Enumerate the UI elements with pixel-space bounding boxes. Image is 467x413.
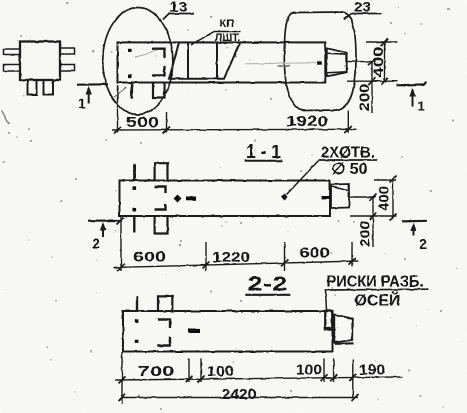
hatch plate divider 2: [216, 43, 218, 79]
svg-text:400: 400: [370, 46, 386, 77]
svg-text:2ХØТВ.: 2ХØТВ.: [321, 144, 375, 161]
section marker 1 right: [397, 82, 426, 114]
faint mid pencil line body: [245, 63, 316, 64]
svg-text:ØСЕЙ: ØСЕЙ: [355, 292, 401, 310]
lower tab line 1-1: [133, 216, 135, 233]
svg-text:500: 500: [126, 114, 159, 131]
svg-text:1: 1: [78, 96, 86, 112]
section marker 2 right: [402, 221, 427, 253]
leg line below body: [131, 83, 134, 98]
ext 201: [200, 358, 202, 382]
plate dot top-left (top view): [128, 49, 132, 53]
svg-text:КП: КП: [219, 18, 234, 30]
ticks: [118, 264, 125, 271]
left rebar bar lower: [4, 65, 21, 72]
riska tab bottom bar 2-2: [325, 327, 334, 330]
svg-text:200: 200: [357, 221, 373, 247]
ext mid: [347, 61, 373, 63]
detail ellipse left (node 13): [103, 8, 173, 115]
svg-text:2-2: 2-2: [248, 274, 288, 296]
bracket bottom 2-2: [158, 337, 171, 346]
plate dot top 1-1: [133, 186, 137, 190]
left rebar bar upper: [4, 49, 21, 55]
svg-text:190: 190: [359, 362, 385, 379]
svg-text:∅ 50: ∅ 50: [332, 161, 368, 178]
upper tab square 2-2: [158, 296, 172, 311]
right side vertical dims (top view): [347, 39, 398, 114]
ext top: [374, 179, 397, 181]
end trapezoid 1-1: [331, 184, 349, 208]
bracket top 1-1: [155, 187, 166, 194]
plate dot bottom 2-2: [135, 339, 139, 343]
scratch across ellipse lower left: [114, 88, 126, 98]
hole diamond right 1-1 (leader target): [281, 194, 288, 201]
ext line left: [117, 85, 119, 133]
ticks: [381, 39, 388, 46]
corner tick at body: [117, 218, 124, 225]
ext left: [120, 217, 122, 271]
ext at 352: [351, 242, 353, 267]
bracket bottom 1-1: [155, 204, 166, 210]
ext left long: [121, 352, 123, 404]
ext at 206: [205, 242, 207, 271]
ext line right: [347, 111, 349, 133]
label 23: [344, 0, 382, 20]
dim 200 line: [372, 197, 374, 247]
hatch plate parallelogram KP: [169, 43, 240, 79]
dim 400 line: [392, 179, 394, 217]
ext top: [366, 41, 398, 43]
ticks: [390, 176, 397, 183]
end trapezoid inner line lower: [328, 72, 346, 73]
end trapezoid 2-2: [334, 315, 352, 343]
right side vertical dims (1-1): [350, 176, 397, 248]
upper tab line 1-1: [133, 164, 135, 180]
svg-text:100: 100: [296, 362, 322, 379]
ext line mid: [166, 112, 168, 133]
label riski razb osey: [325, 274, 429, 311]
title 2-2: [245, 274, 290, 296]
bottom leg bar 2: [44, 80, 54, 95]
svg-text:1: 1: [418, 99, 425, 114]
tick: [345, 126, 352, 133]
section marker 1 left: [77, 84, 108, 111]
dim line row2 2420: [122, 397, 358, 399]
riska tab 2-2: [325, 311, 332, 330]
svg-text:1220: 1220: [212, 249, 250, 266]
section marker 2 left: [88, 218, 124, 252]
right rebar bar lower: [60, 65, 75, 72]
tick: [114, 127, 121, 134]
ext mid: [350, 196, 376, 198]
ext 334: [333, 358, 335, 382]
bracket top 2-2: [158, 320, 171, 329]
dim line: [112, 128, 357, 131]
end trapezoid inner slant 1-1: [332, 187, 349, 191]
faint scratch in body: [135, 50, 157, 58]
svg-text:РИСКИ РАЗБ.: РИСКИ РАЗБ.: [327, 274, 424, 291]
svg-text:13: 13: [169, 0, 188, 15]
2-2 bottom dimension rows: [115, 352, 402, 404]
dim 200 line: [371, 62, 373, 113]
right rebar bar upper: [60, 48, 75, 54]
ext at 284.5: [284, 242, 286, 271]
dash mark 2-2: [189, 329, 201, 334]
detail ellipse right (node 23): [284, 12, 356, 111]
ticks row1: [119, 376, 126, 383]
column body 2-2: [123, 311, 333, 352]
ext 189: [188, 358, 190, 382]
svg-text:700: 700: [138, 363, 175, 380]
svg-text:600: 600: [133, 249, 166, 266]
dim line row1: [115, 377, 402, 380]
column body 1-1: [120, 181, 331, 217]
svg-text:2420: 2420: [222, 386, 257, 403]
svg-text:2: 2: [92, 235, 100, 251]
embedded plate bracket bottom (top view): [153, 67, 165, 76]
bottom leg bar 1: [28, 80, 37, 95]
ext bottom: [350, 215, 397, 217]
plate dot top 2-2: [135, 319, 139, 323]
upper tab line 2-2: [136, 296, 138, 311]
title 1-1: [245, 142, 282, 163]
hatch plate divider 1: [187, 43, 189, 79]
ticks row2: [119, 394, 126, 401]
ext 324: [323, 358, 325, 382]
dim 400 line: [384, 42, 386, 81]
faint dash mid body: [277, 66, 290, 67]
1-1 bottom dimension row 600/1220/600: [114, 217, 358, 271]
embedded plate bracket top (top view): [153, 49, 165, 57]
end trapezoid top view: [327, 48, 347, 76]
ext bottom: [347, 80, 398, 82]
label 2xOTB d50: [287, 144, 378, 194]
svg-text:400: 400: [376, 186, 392, 211]
extra bottom line trapezoid 2-2: [335, 342, 354, 345]
leg square below body: [153, 83, 165, 98]
ext 353 long: [352, 360, 354, 399]
end trapezoid inner line upper: [328, 53, 346, 54]
hole diamond left 1-1: [174, 195, 182, 203]
weld mark top view: [317, 61, 322, 64]
plate dot bottom-left (top view): [128, 74, 132, 78]
tick: [163, 127, 170, 134]
svg-text:100: 100: [207, 363, 234, 380]
label 13: [163, 0, 194, 20]
svg-text:2: 2: [419, 237, 427, 253]
cross-section square (top-left column section): [20, 42, 60, 81]
lower tab square 1-1: [155, 216, 168, 234]
upper tab square 1-1: [155, 163, 168, 180]
svg-text:200: 200: [356, 83, 372, 111]
dimension 500/1920 row: [112, 85, 357, 134]
svg-text:600: 600: [300, 245, 330, 262]
svg-text:1920: 1920: [286, 113, 328, 130]
svg-text:23: 23: [354, 0, 371, 15]
dim line: [114, 261, 358, 268]
weld dash near right edge 1-1: [322, 196, 330, 199]
label KP / 1sht: [191, 18, 241, 45]
plate dot bottom 1-1: [133, 208, 137, 212]
column body top view: [118, 42, 326, 82]
dash right of diamond 1-1: [186, 197, 196, 201]
scan smudges: [1, 111, 9, 124]
junction blob trapezoid 2-2: [334, 341, 338, 344]
